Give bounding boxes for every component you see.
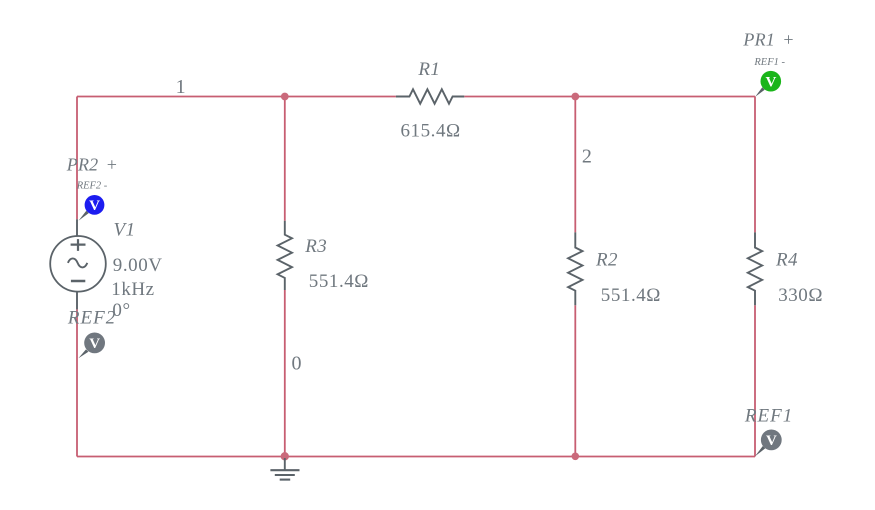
svg-text:REF1 -: REF1 - — [753, 57, 785, 68]
probe REF1 (gray V) — [755, 430, 782, 457]
svg-text:V1: V1 — [114, 219, 136, 240]
svg-text:PR2 +: PR2 + — [66, 154, 118, 174]
svg-text:1: 1 — [176, 76, 186, 98]
wire right vertical lower (R4 bottom) — [754, 305, 756, 456]
resistor R4 — [748, 232, 762, 305]
probe REF2 (gray V) — [78, 333, 105, 359]
svg-text:2: 2 — [582, 146, 592, 168]
resistor R1 — [396, 89, 464, 103]
wire right vertical upper (R4 top) — [754, 97, 756, 233]
svg-text:V: V — [89, 336, 100, 352]
junction node 0 right — [572, 453, 580, 461]
wire R3 branch upper — [284, 97, 286, 221]
svg-text:REF2 -: REF2 - — [76, 181, 108, 192]
svg-text:0: 0 — [292, 353, 302, 375]
svg-text:R1: R1 — [417, 59, 440, 80]
svg-text:9.00V: 9.00V — [113, 255, 163, 276]
svg-text:REF2: REF2 — [67, 308, 116, 329]
AC source V1 — [50, 219, 106, 309]
ground — [270, 458, 299, 480]
svg-text:PR1 +: PR1 + — [742, 30, 794, 50]
junction node 0 at ground — [281, 452, 289, 460]
wire top-right horizontal (node 2) — [464, 96, 755, 98]
junction node 2 top — [571, 93, 579, 101]
wire R2 branch lower — [574, 305, 576, 456]
probe PR1 (green V) — [755, 71, 781, 97]
svg-text:R4: R4 — [775, 249, 798, 270]
wire R2 branch upper — [574, 97, 576, 233]
svg-text:615.4Ω: 615.4Ω — [401, 120, 461, 141]
svg-text:V: V — [766, 433, 777, 449]
junction node 1 top — [281, 93, 289, 101]
wire left vertical upper (V1 top to corner) — [76, 97, 78, 220]
svg-text:V: V — [765, 74, 776, 90]
svg-text:REF1: REF1 — [744, 406, 793, 427]
resistor R3 — [278, 221, 292, 290]
wire left vertical lower (V1 bottom to corner) — [76, 309, 78, 456]
probe PR2 (blue V) — [79, 195, 105, 221]
svg-text:551.4Ω: 551.4Ω — [601, 285, 661, 306]
wire bottom horizontal (node 0) — [77, 456, 755, 458]
svg-text:330Ω: 330Ω — [778, 285, 823, 306]
svg-text:R2: R2 — [595, 249, 618, 270]
svg-text:V: V — [89, 198, 100, 214]
wire R3 branch lower — [284, 290, 286, 457]
svg-text:551.4Ω: 551.4Ω — [309, 271, 369, 292]
wire top-left horizontal (node 1) — [77, 96, 396, 98]
resistor R2 — [568, 232, 582, 305]
svg-text:1kHz: 1kHz — [111, 279, 154, 300]
svg-text:R3: R3 — [304, 236, 327, 257]
